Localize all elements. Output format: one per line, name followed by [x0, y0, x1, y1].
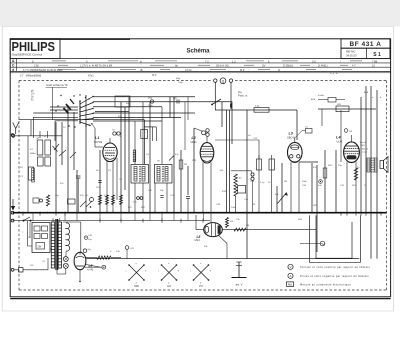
mains switch: [23, 220, 25, 222]
svg-text:4 7: 4 7: [352, 64, 356, 68]
L1 grid wire left: [95, 146, 103, 148]
revision table lines: [10, 58, 390, 60]
svg-text:b· jr ·b·: b· jr ·b·: [330, 72, 338, 75]
oscillator coil assembly: [37, 140, 43, 155]
svg-text:100p: 100p: [148, 105, 154, 107]
output transformer S12: [367, 158, 370, 172]
pilot lamp 2: [63, 263, 68, 268]
tuning gang wire 4: [73, 112, 75, 170]
selector wires: [50, 248, 52, 250]
svg-text:1M: 1M: [252, 204, 255, 206]
trimmer C2: [59, 150, 66, 156]
svg-text:PU: PU: [199, 284, 203, 288]
L5 cathode wire: [86, 256, 97, 258]
svg-text:W F: W F: [152, 74, 157, 77]
svg-text:7 88: 7 88: [372, 59, 378, 63]
svg-text:Bouch: Bouch: [362, 149, 369, 151]
svg-text:UCH42: UCH42: [94, 141, 103, 144]
svg-text:7005: 7005: [360, 145, 366, 147]
switch wafer detail MW: [129, 265, 144, 280]
svg-text:bt: bt: [278, 68, 280, 72]
switch wafer detail PU: [194, 265, 209, 280]
wire x181: [180, 150, 182, 213]
bottom wire run: [86, 258, 359, 260]
svg-text:UY41: UY41: [88, 269, 95, 272]
IF transformer S7: [131, 165, 149, 184]
feedback loop inner: [316, 215, 352, 258]
wire x121: [120, 102, 122, 213]
hf wire y121: [93, 120, 162, 122]
cap C20: [251, 173, 254, 176]
svg-text:47b3: 47b3: [88, 74, 94, 77]
svg-text:47t: 47t: [30, 148, 33, 151]
svg-text:AVB: AVB: [364, 91, 369, 94]
transformer core: [55, 219, 57, 270]
antenna down wire: [27, 136, 29, 213]
L4 grid cap label: [344, 129, 348, 133]
svg-text:1M: 1M: [284, 181, 287, 183]
voltage selector panel: [32, 223, 50, 253]
L8 input wire: [196, 229, 204, 231]
mains wires down: [27, 221, 29, 246]
L8 output wire: [222, 229, 316, 231]
wire x336: [335, 150, 337, 213]
svg-text:7·2: 7·2: [205, 59, 209, 63]
svg-text:A: A: [290, 274, 292, 278]
svg-text:3nF: 3nF: [318, 185, 322, 187]
transformer primary: [51, 222, 54, 268]
fuse component: [336, 106, 349, 112]
l2 screen wires: [184, 102, 186, 151]
long vertical x247: [246, 110, 248, 259]
antenna wire: [15, 135, 62, 137]
title block PHILIPS box: [10, 39, 60, 59]
svg-text:6-8p: 6-8p: [255, 105, 260, 107]
svg-text:M 9: M 9: [240, 68, 245, 72]
wire x277: [276, 186, 278, 213]
svg-text:30 lb H (N): 30 lb H (N): [216, 64, 229, 68]
IF1 caps: [137, 197, 140, 200]
svg-text:D 65b(L): D 65b(L): [283, 64, 293, 68]
resistor R14: [258, 155, 260, 213]
hf wire y117: [93, 117, 181, 119]
svg-text:2W: 2W: [38, 246, 42, 249]
svg-text:Août schéma 7b: Août schéma 7b: [46, 83, 68, 87]
date box divider: [366, 48, 368, 58]
transformer top wires: [52, 218, 54, 222]
svg-text:L 27t V h· 4t 4B Th 2% tt B4: L 27t V h· 4t 4B Th 2% tt B4: [80, 64, 113, 68]
measure point M: [320, 241, 325, 246]
speaker: [380, 161, 384, 169]
svg-text:47 b3: 47 b3: [185, 68, 192, 72]
fuse wire top right: [318, 108, 376, 110]
L2 grid wire: [194, 128, 203, 132]
IF1 top leads: [134, 121, 136, 165]
svg-text:L8: L8: [197, 235, 201, 239]
svg-text:Schéma: Schéma: [186, 49, 210, 55]
pilot lamp 1: [63, 257, 68, 262]
svg-text:BF 431 A: BF 431 A: [350, 41, 382, 48]
osc cap: [150, 100, 153, 103]
svg-text:1 2: 1 2: [232, 59, 236, 63]
wire x174: [173, 97, 175, 213]
svg-text:2t 4M(L): 2t 4M(L): [318, 64, 328, 68]
date box: [341, 48, 390, 58]
resistor R15: [271, 155, 273, 213]
earth terminal left: [11, 268, 14, 271]
wire x125: [124, 107, 126, 190]
padding caps row: [29, 167, 34, 180]
svg-text:MMbt: MMbt: [30, 152, 36, 155]
long vertical x371: [370, 86, 372, 259]
osc coil upper: [133, 150, 136, 162]
schematic dashed border: [19, 80, 211, 82]
nested wire corner 2: [221, 102, 223, 128]
double vertical 226: [226, 110, 228, 213]
legend A symbol: [288, 273, 293, 278]
svg-text:SV: SV: [262, 64, 266, 68]
mw trimmer: [80, 201, 86, 207]
svg-text:MW: MW: [134, 284, 139, 288]
osc coil small: [32, 168, 35, 182]
svg-text:L1: L1: [95, 136, 99, 140]
tube L4 UL41: [344, 142, 360, 163]
L5 cathode stub: [79, 270, 81, 282]
transformer secondary: [58, 222, 61, 268]
wire x77: [76, 170, 78, 213]
wire x150: [149, 102, 151, 213]
long vertical x377: [376, 90, 378, 259]
feedback loop outer: [310, 215, 361, 262]
svg-text:100p: 100p: [178, 82, 184, 84]
IF1 lead wires: [134, 183, 136, 213]
R post: [226, 218, 229, 228]
svg-text:Posit. w.: Posit. w.: [238, 94, 248, 98]
cap C15: [186, 196, 190, 198]
svg-text:AVB: AVB: [311, 98, 316, 101]
svg-text:V: V: [290, 265, 292, 269]
IF3 feed comp: [254, 108, 269, 113]
svg-text:Bouch: Bouch: [360, 142, 367, 144]
measure point on AF wire: [319, 180, 323, 184]
svg-text:Org/SERVICE Control: Org/SERVICE Control: [12, 53, 43, 57]
svg-text:UBC41: UBC41: [287, 136, 296, 139]
L3 top vertical: [296, 110, 298, 140]
waveband switch S1 wafer: [79, 100, 81, 124]
resistor R7: [179, 160, 183, 169]
mains terminal left: [11, 219, 14, 222]
tuning indicator tube L8: [204, 223, 223, 237]
resistor R13: [234, 174, 237, 196]
svg-text:3·6: 3·6: [312, 59, 316, 63]
tuner box: [115, 96, 130, 107]
svg-text:Mesuré au ondemètre électro: Mesuré au ondemètre électronique: [300, 282, 351, 286]
IF transformer S8: [155, 165, 173, 184]
bandpass top wire: [19, 119, 87, 121]
svg-text:34.05.53: 34.05.53: [346, 53, 357, 57]
cap c5: [76, 175, 81, 177]
svg-text:UM4: UM4: [195, 239, 201, 242]
L2 pin wires: [202, 162, 204, 212]
long vertical x361: [360, 97, 362, 213]
svg-text:2 Bl: 2 Bl: [34, 64, 39, 68]
svg-text:b 7 F MMbMhBæBh 4b BFM bMtb: b 7 F MMbMhBæBh 4b BFM bMtb: [23, 68, 63, 72]
wire x129: [128, 97, 130, 213]
svg-text:S 1: S 1: [373, 52, 381, 58]
heater pin ticks: [32, 213, 34, 221]
aout lead wire: [51, 87, 53, 119]
AF wire y162: [299, 161, 318, 163]
svg-text:2 T · MMbæ审MbB: 2 T · MMbæ审MbB: [20, 73, 41, 77]
frame aerial symbol: [238, 262, 240, 278]
nested wire corner 3: [231, 102, 233, 145]
svg-text:1nF: 1nF: [148, 190, 152, 192]
svg-text:40t: 40t: [239, 177, 242, 180]
phono lead right: [230, 82, 232, 109]
cap ticks x162: [160, 195, 163, 197]
svg-text:GO: GO: [167, 284, 171, 288]
legend M symbol: [287, 282, 294, 287]
svg-text:scale: scale: [362, 152, 368, 154]
antenna symbol: [13, 123, 16, 129]
ground bus: [13, 212, 387, 214]
wire x194: [193, 128, 195, 213]
avc corner wire: [231, 171, 252, 173]
svg-text:2M: 2M: [246, 225, 249, 227]
svg-text:CD: CD: [42, 261, 46, 263]
coil block lower: [38, 157, 44, 166]
wire x312: [311, 163, 313, 213]
heater ticks: [99, 219, 101, 223]
cap ticks x100: [98, 180, 101, 182]
L3 pin wires: [290, 162, 292, 212]
svg-text:ant. V: ant. V: [236, 282, 243, 286]
coil block top leads: [39, 131, 41, 138]
chassis terminal left: [11, 211, 14, 214]
L3 grid cap: [306, 129, 313, 134]
long vertical x86: [85, 95, 87, 213]
agc resistor row: [99, 195, 102, 205]
svg-text:fusible: fusible: [318, 95, 325, 97]
svg-text:Fig: Fig: [238, 90, 242, 94]
svg-text:27t: 27t: [108, 169, 111, 172]
nested wire corner 1: [169, 97, 171, 117]
wire x325: [324, 150, 326, 213]
antenna terminal: [12, 134, 15, 137]
svg-text:tB: tB: [140, 68, 143, 72]
wire x188: [187, 166, 189, 195]
IF2 lead wires: [154, 183, 156, 213]
antenna terminal left: [11, 134, 14, 137]
svg-text:UL41: UL41: [337, 140, 344, 143]
antenna branch: [30, 120, 32, 136]
svg-text:10 ·: 10 ·: [372, 64, 377, 68]
switch lever top: [212, 99, 221, 105]
volume pot arrow: [278, 193, 287, 204]
earth terminal box: [19, 268, 24, 272]
switch wafer detail GO: [162, 265, 177, 280]
L2 top cap: [202, 131, 206, 135]
svg-text:Tension et volts positive: Tension et volts positive par rapport au…: [300, 265, 370, 269]
switch fan wires: [93, 96, 195, 98]
L1 pin wires: [106, 161, 108, 213]
svg-text:gfr: gfr: [31, 90, 34, 93]
transformer hv winding: [66, 223, 70, 251]
L4 neck wire: [351, 135, 353, 142]
hf wire y113: [93, 112, 195, 114]
svg-text:10nF: 10nF: [231, 207, 237, 209]
L4 cathode resistor: [354, 168, 357, 180]
bandpass corner wire: [86, 119, 144, 121]
phono input terminals on border: [214, 79, 217, 82]
tuning gang wire 1: [55, 122, 57, 213]
lamp wires: [65, 252, 67, 257]
svg-text:d: d: [12, 68, 14, 72]
resistor R20: [323, 168, 327, 178]
L1 top cap wire: [109, 138, 111, 143]
coupling cap on wire: [176, 100, 178, 104]
svg-text:RW MC: RW MC: [346, 50, 355, 54]
corner wire y111: [95, 111, 129, 113]
res r4: [46, 195, 49, 206]
ground symbol: [12, 199, 14, 209]
long vertical x366: [365, 86, 367, 213]
feedback wire: [300, 243, 320, 245]
svg-text:2M: 2M: [184, 164, 187, 166]
bus pin stubs: [340, 213, 342, 216]
HT measure point: [84, 236, 88, 240]
tuning gang wire 3: [67, 105, 69, 213]
L8 diagonal wire: [219, 235, 228, 243]
detector corner wire: [215, 140, 259, 159]
wire x100: [99, 150, 101, 213]
padder trimmer: [54, 144, 59, 150]
output terminal: [102, 265, 106, 269]
tube L2 UF41: [200, 143, 214, 163]
svg-text:1M: 1M: [349, 131, 352, 133]
filter cap C40: [83, 249, 87, 253]
svg-text:47t: 47t: [85, 194, 88, 197]
phono lead left: [214, 82, 216, 99]
L4 pin wires: [346, 162, 348, 213]
volume pot wire: [281, 163, 283, 213]
type number box BF 431 A: [341, 39, 390, 48]
svg-text:L2: L2: [192, 136, 196, 140]
trimmer h7: [169, 156, 174, 161]
svg-text:MΩ: MΩ: [288, 284, 292, 286]
cap C41: [125, 246, 129, 250]
L2 neck wire: [206, 136, 208, 142]
grid stopper: [328, 97, 336, 102]
IF3 feed wire: [215, 109, 297, 111]
svg-text:0,1μ: 0,1μ: [260, 182, 265, 184]
wire x317: [316, 165, 318, 252]
cap pair C9: [113, 132, 116, 135]
L3 neck wire: [294, 138, 296, 142]
bus junction dots: [22, 212, 24, 214]
agc cap: [90, 198, 94, 202]
tuning gang wire 2: [61, 122, 63, 165]
svg-text:Prises et volts négative p: Prises et volts négative par rapport au …: [300, 274, 369, 278]
svg-text:L3: L3: [289, 132, 293, 136]
tube L3 UBC41: [288, 142, 303, 162]
if1 secondary feed: [144, 126, 156, 128]
L1 grid feed: [94, 128, 96, 147]
tube L1 UCH42: [103, 143, 117, 162]
heater line: [13, 220, 210, 222]
rectifier tube L5: [74, 252, 86, 269]
coil S6 box: [141, 130, 148, 139]
filter choke: [97, 256, 111, 259]
legend V symbol: [288, 264, 293, 269]
